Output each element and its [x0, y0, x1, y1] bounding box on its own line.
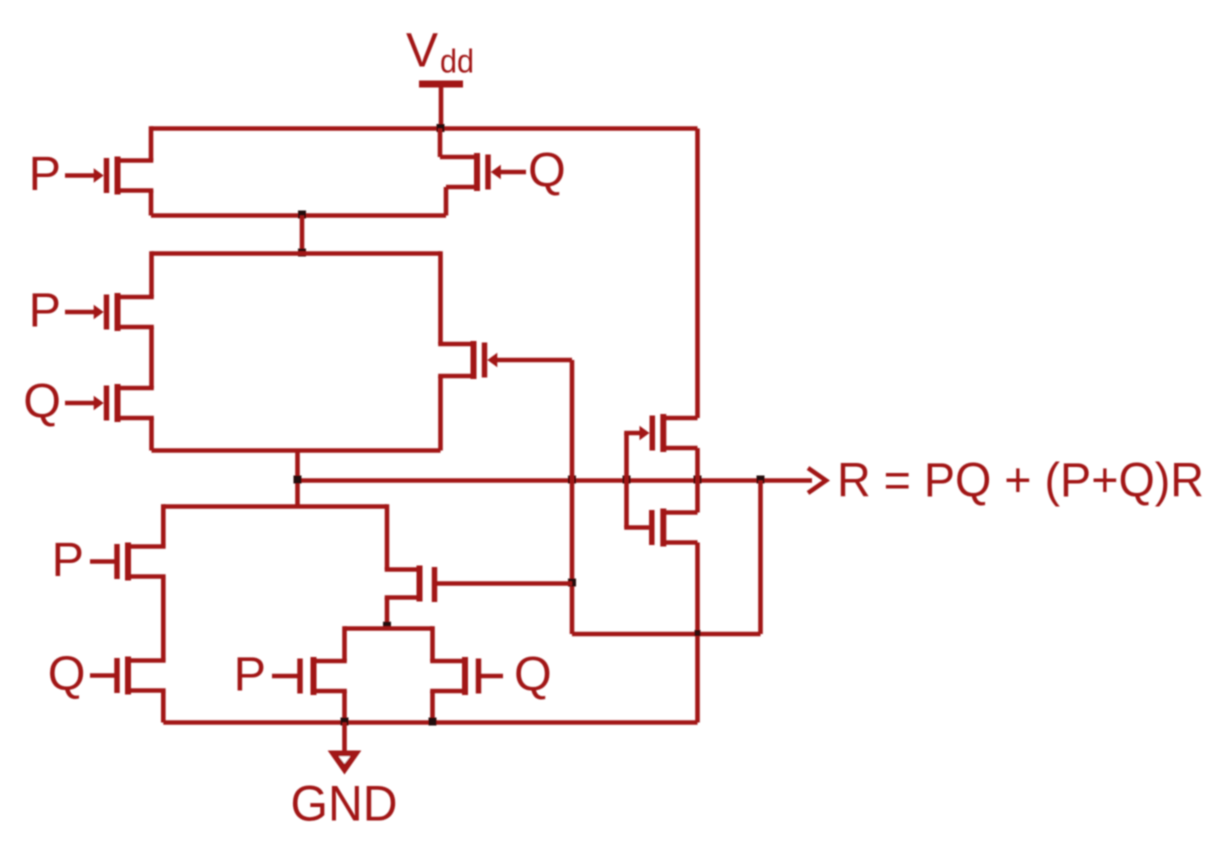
- nmos block3 feedback : bottom lead: [385, 595, 420, 600]
- node dot inverter drain: [694, 476, 702, 484]
- pmos top-right input Q : gate lead: [500, 170, 527, 175]
- nmos block3 input Q : channel: [125, 657, 131, 695]
- pmos block2 feedback : gate bar: [482, 343, 488, 378]
- nmos output stage : gate lead: [624, 525, 649, 530]
- node dot stub crossing: [294, 476, 302, 484]
- pmos block2 input Q : bottom lead: [118, 416, 154, 421]
- nmos block3 input Q : bottom lead: [128, 688, 166, 693]
- label P (block3): [52, 533, 84, 587]
- nmos pair input P : gate lead: [272, 674, 298, 679]
- label Q (block3): [48, 647, 86, 701]
- svg-text:Q: Q: [48, 647, 86, 701]
- Vdd supply T-bar symbol: [419, 81, 463, 88]
- nmos block3 input P : gate lead: [90, 559, 115, 564]
- wire block3 left edge lower: [161, 691, 166, 723]
- nmos pair input P : top lead: [314, 659, 347, 664]
- wire Q1 bottom lead vertical to row1 bottom: [444, 187, 449, 216]
- label Q (pair): [514, 648, 552, 702]
- pmos block2 feedback : top lead: [438, 342, 473, 347]
- pmos top-right input Q : channel: [474, 153, 480, 191]
- nmos pair input Q : gate lead: [481, 674, 504, 679]
- label output equation: [837, 454, 1204, 508]
- pmos output stage : arrow: [640, 426, 650, 440]
- wire bottom rail: [163, 720, 697, 725]
- pmos top-left input P : bottom lead: [118, 188, 154, 193]
- nmos block3 feedback : top lead: [385, 567, 420, 572]
- node dot feedback gate: [568, 476, 576, 484]
- pmos block2 input P : gate bar: [104, 295, 110, 330]
- pmos block2 input Q : gate bar: [104, 386, 110, 421]
- pmos block2 input P : bottom lead: [118, 325, 154, 330]
- nmos block3 feedback : gate bar: [432, 567, 438, 602]
- svg-text:GND: GND: [291, 776, 398, 832]
- svg-text:dd: dd: [440, 43, 474, 80]
- pmos top-left input P : gate lead: [65, 173, 95, 178]
- nmos block3 input P : channel: [125, 543, 131, 581]
- nmos output stage : channel: [660, 509, 666, 547]
- wire block3 top edge: [163, 504, 387, 509]
- label P (top-left): [29, 147, 61, 201]
- pmos top-left input P : channel: [115, 157, 121, 195]
- pmos block2 feedback : gate lead: [496, 358, 572, 363]
- nmos output stage : bottom lead: [663, 540, 697, 545]
- pmos top-right input Q : arrow: [491, 165, 501, 179]
- wire block3 left edge middle: [161, 577, 166, 661]
- wire block2 left edge upper: [149, 251, 154, 297]
- node dot y634 junction: [695, 630, 701, 636]
- node junction dot block2 top: [298, 249, 306, 257]
- node dot GND junction: [341, 718, 349, 726]
- pmos top-left input P : top lead: [118, 158, 154, 163]
- wire Vdd stem: [439, 84, 444, 129]
- nmos pair input Q : gate bar: [476, 659, 482, 694]
- ground arrow symbol: [332, 753, 358, 772]
- svg-text:P: P: [29, 284, 61, 338]
- nmos output stage : gate vertical: [624, 481, 629, 528]
- svg-text:P: P: [234, 648, 266, 702]
- wire right tall vertical from rail: [695, 129, 700, 419]
- svg-text:Q: Q: [23, 375, 61, 429]
- nmos block3 input P : bottom lead: [128, 574, 166, 579]
- label P (block2): [29, 284, 61, 338]
- wire output node horizontal: [298, 478, 813, 483]
- pmos block2 input Q : top lead: [118, 386, 154, 391]
- pmos top-right input Q : top lead: [440, 155, 477, 160]
- wire bottom link horizontal y=634: [572, 632, 761, 637]
- svg-text:P: P: [52, 533, 84, 587]
- wire block2 left edge middle: [149, 327, 154, 388]
- node dot pair top: [383, 622, 391, 630]
- wire output right vertical x=760.5: [758, 481, 763, 635]
- wire nmos output drain vertical down: [695, 543, 700, 723]
- svg-text:Q: Q: [528, 144, 566, 198]
- pmos output stage : gate lead: [624, 431, 641, 436]
- svg-text:Q: Q: [514, 648, 552, 702]
- pmos block2 input Q : channel: [115, 384, 121, 422]
- nmos output stage : top lead: [663, 510, 697, 515]
- wire nmos output source vertical to rail: [695, 481, 700, 513]
- wire row1 bottom: [151, 213, 446, 218]
- nmos pair input P : channel: [311, 657, 317, 695]
- wire block2 right edge lower: [438, 376, 443, 451]
- wire GND stem: [342, 723, 347, 754]
- wire feedback vertical x=572: [570, 360, 575, 634]
- nmos block3 input Q : top lead: [128, 658, 166, 663]
- wire row1 left edge lower: [149, 191, 154, 216]
- pmos block2 input P : gate lead: [65, 310, 95, 315]
- node junction dot row1 bottom: [298, 211, 306, 219]
- nmos pair input P : gate bar: [297, 659, 303, 694]
- pmos output stage : top lead: [663, 416, 697, 421]
- pmos top-right input Q : gate bar: [485, 155, 491, 190]
- svg-text:P: P: [29, 147, 61, 201]
- output arrowhead: [808, 468, 826, 493]
- nmos block3 input P : top lead: [128, 544, 166, 549]
- pmos output stage : channel: [660, 414, 666, 452]
- pmos output stage : gate vertical: [624, 433, 629, 481]
- pmos block2 feedback : arrow: [487, 353, 497, 367]
- nmos pair input Q : top lead: [430, 659, 465, 664]
- pmos block2 input P : channel: [115, 293, 121, 331]
- wire pair top horizontal: [345, 626, 433, 631]
- wire block2 right edge upper: [438, 251, 443, 344]
- pmos top-right input Q : bottom lead: [446, 185, 477, 190]
- label Q (block2): [23, 375, 61, 429]
- label GND: [291, 776, 398, 832]
- wire Q1 top lead vertical from rail: [438, 129, 443, 158]
- pmos block2 feedback : channel: [471, 341, 477, 379]
- pmos block2 input P : top lead: [118, 295, 154, 300]
- pmos block2 input Q : arrow: [94, 396, 104, 410]
- wire block2 left edge lower: [149, 418, 154, 451]
- nmos block3 input P : gate bar: [114, 544, 120, 579]
- pmos block2 feedback : bottom lead: [438, 374, 473, 379]
- wire pair left branch lower: [342, 691, 347, 723]
- svg-text:V: V: [406, 25, 438, 78]
- nmos block3 feedback : gate lead wire: [437, 581, 573, 586]
- node dot feedback-gate junction x=572: [568, 579, 576, 587]
- pmos block2 input Q : gate lead: [65, 401, 95, 406]
- node dot output branch: [757, 476, 765, 484]
- wire pair right branch upper: [430, 626, 435, 661]
- pmos block2 input P : arrow: [94, 305, 104, 319]
- wire block3 right edge upper: [385, 504, 390, 569]
- wire pmos output drain vertical: [695, 448, 700, 481]
- Vdd label: [406, 25, 474, 80]
- pmos top-left input P : gate bar: [104, 158, 110, 193]
- nmos output stage : gate bar: [649, 510, 655, 545]
- nmos block3 feedback : channel: [417, 566, 423, 602]
- nmos block3 input Q : gate lead: [90, 673, 115, 678]
- node dot pair right bottom: [429, 718, 437, 726]
- node Vdd junction dot: [437, 124, 445, 132]
- wire block3 left edge upper: [161, 504, 166, 546]
- wire block2 top edge: [152, 251, 441, 256]
- wire block2 bottom edge: [152, 448, 441, 453]
- nmos pair input Q : bottom lead: [430, 689, 465, 694]
- nmos pair input Q : channel: [462, 657, 468, 695]
- wire block3 right edge lower: [385, 598, 390, 629]
- svg-text:R = PQ + (P+Q)R: R = PQ + (P+Q)R: [837, 454, 1204, 508]
- label Q (top-right): [528, 144, 566, 198]
- label P (pair): [234, 648, 266, 702]
- wire stub row1 to block2: [300, 216, 305, 254]
- pmos output stage : gate bar: [650, 416, 656, 451]
- wire stub block2 bottom to block3 top: [295, 451, 300, 507]
- pmos top-left input P : arrow: [94, 168, 104, 182]
- wire Vdd top rail: [151, 126, 698, 131]
- wire pair left branch upper: [342, 626, 347, 661]
- nmos pair input P : bottom lead: [314, 689, 347, 694]
- node dot inverter gates: [623, 476, 631, 484]
- wire pair right branch lower: [430, 691, 435, 723]
- wire row1 left edge (rail to P transistor): [149, 126, 154, 160]
- nmos block3 input Q : gate bar: [114, 658, 120, 693]
- pmos output stage : bottom lead: [663, 446, 697, 451]
